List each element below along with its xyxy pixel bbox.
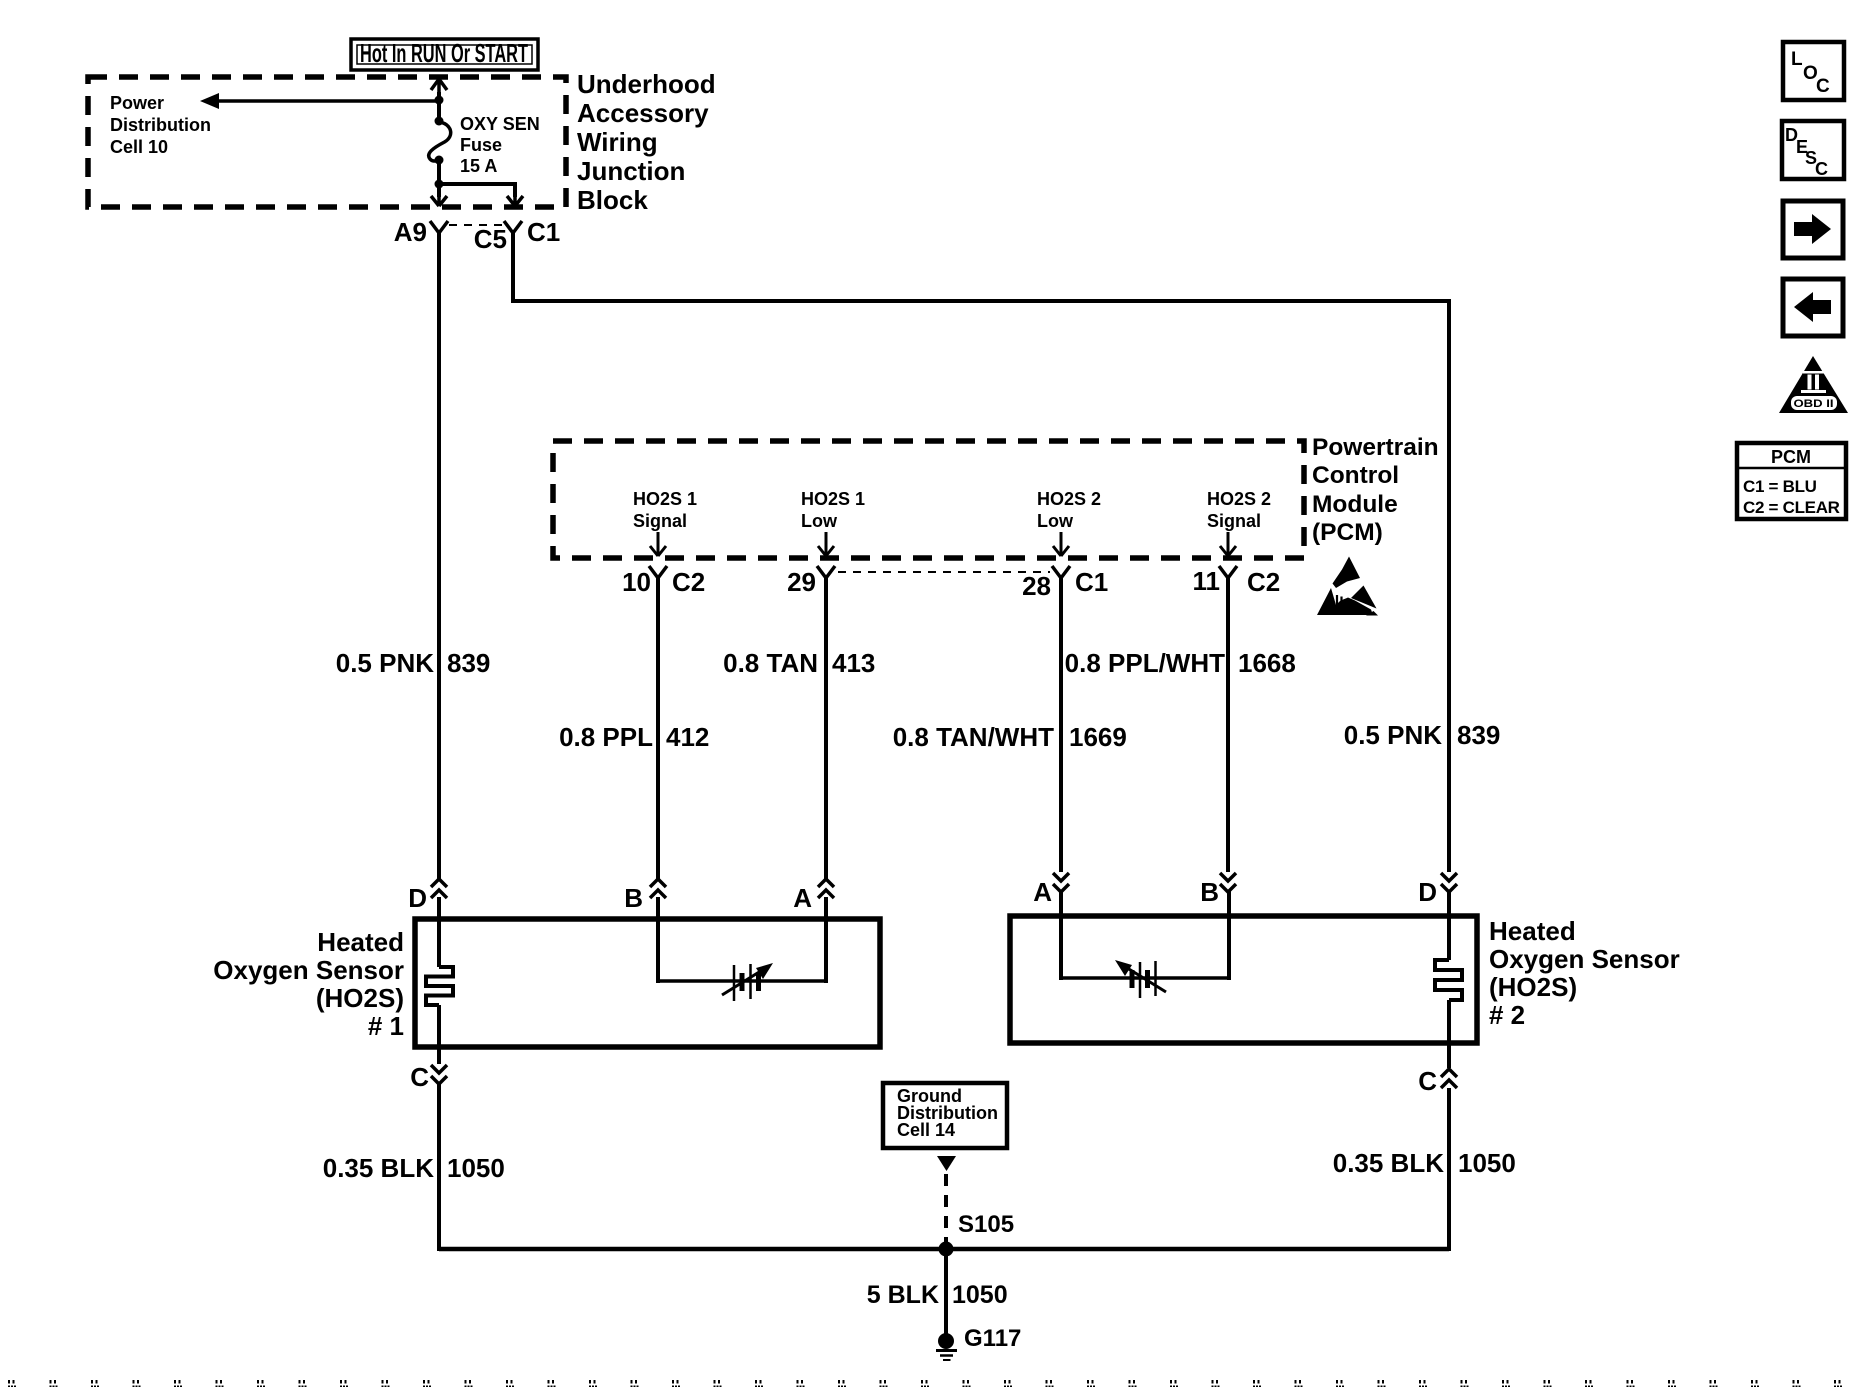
svg-text:C2: C2 <box>672 567 705 597</box>
label: 0.35 BLK 1050 (right) <box>1333 1148 1516 1178</box>
svg-text:Low: Low <box>801 511 838 531</box>
wire: 0.8 TAN 413 (pin29 to HO2S#1 A) <box>824 577 828 879</box>
svg-text:Oxygen Sensor: Oxygen Sensor <box>213 955 404 985</box>
svg-text:Hot In RUN Or START: Hot In RUN Or START <box>360 38 528 68</box>
label: Power Distribution Cell 10 <box>110 93 211 157</box>
sidebar icon: arrow right <box>1783 201 1843 258</box>
label box: Ground Distribution Cell 14 <box>883 1083 1007 1148</box>
svg-text:Heated: Heated <box>317 927 404 957</box>
svg-text:C1: C1 <box>1075 567 1108 597</box>
svg-text:Control: Control <box>1312 462 1399 489</box>
PCM: Powertrain Control Module (dashed box) <box>553 441 1304 558</box>
svg-text:C1 = BLU: C1 = BLU <box>1743 477 1817 496</box>
svg-text:1050: 1050 <box>1458 1148 1516 1178</box>
svg-text:0.8 TAN/WHT: 0.8 TAN/WHT <box>893 722 1054 752</box>
sensor cell (variable, HO2S#1) <box>722 963 773 1001</box>
connector B (HO2S#2) <box>1200 873 1236 907</box>
wire: heater to C (HO2S#2) <box>1447 1000 1451 1068</box>
label: 0.5 PNK 839 (right) <box>1344 720 1501 750</box>
connector A (HO2S#2), down chevrons <box>1033 873 1069 907</box>
svg-text:Signal: Signal <box>633 511 687 531</box>
svg-text:C5: C5 <box>474 224 507 254</box>
label: Heated Oxygen Sensor (HO2S) # 1 <box>213 927 404 1041</box>
svg-text:Oxygen Sensor: Oxygen Sensor <box>1489 944 1680 974</box>
svg-text:0.5 PNK: 0.5 PNK <box>336 648 434 678</box>
svg-text:Heated: Heated <box>1489 916 1576 946</box>
svg-text:A: A <box>1033 877 1052 907</box>
svg-text:B: B <box>1200 877 1219 907</box>
svg-text:Powertrain: Powertrain <box>1312 434 1439 461</box>
svg-text:1050: 1050 <box>447 1153 505 1183</box>
svg-text:15 A: 15 A <box>460 156 497 176</box>
HO2S #2 sensor box <box>1010 916 1477 1043</box>
svg-text:839: 839 <box>1457 720 1500 750</box>
svg-text:(PCM): (PCM) <box>1312 519 1383 546</box>
svg-text:S105: S105 <box>958 1211 1014 1238</box>
svg-text:A9: A9 <box>394 217 427 247</box>
connector C (HO2S#2), up chevrons <box>1418 1066 1457 1096</box>
label: 0.8 PPL/WHT 1668 <box>1065 648 1296 678</box>
connector C (HO2S#1), down chevrons <box>410 1062 447 1092</box>
svg-text:Junction: Junction <box>577 156 685 186</box>
label: OXY SEN Fuse 15 A <box>460 114 540 176</box>
fuse: OXY SEN Fuse 15 A <box>429 117 451 165</box>
svg-text:Wiring: Wiring <box>577 127 658 157</box>
svg-text:D: D <box>408 883 427 913</box>
svg-text:C: C <box>1816 76 1830 97</box>
wire: heater to C <box>437 1005 441 1064</box>
label: 0.35 BLK 1050 (left) <box>323 1153 505 1183</box>
svg-text:A: A <box>793 883 812 913</box>
label: Heated Oxygen Sensor (HO2S) # 2 <box>1489 916 1680 1030</box>
wire: 5 BLK 1050 (S105 to G117) <box>944 1249 948 1334</box>
svg-text:(HO2S): (HO2S) <box>1489 972 1577 1002</box>
svg-text:Power: Power <box>110 93 164 113</box>
PCM pin label: HO2S 1 Low <box>801 489 865 556</box>
wire: sensor cell link A-B <box>1061 976 1229 980</box>
svg-text:HO2S 1: HO2S 1 <box>633 489 697 509</box>
wire: 0.5 PNK 839 left vertical (A9 to HO2S#1 D) <box>437 232 441 879</box>
pin 28 C1 <box>1022 566 1108 601</box>
svg-text:839: 839 <box>447 648 490 678</box>
svg-text:Cell 10: Cell 10 <box>110 137 168 157</box>
wire: dashed connector tie A9-C5 <box>449 224 503 226</box>
svg-text:# 2: # 2 <box>1489 1000 1525 1030</box>
node: junction dot below fuse <box>435 180 444 189</box>
svg-text:D: D <box>1418 877 1437 907</box>
wire: hot feed up-arrow to Hot In RUN <box>431 79 447 122</box>
svg-text:Fuse: Fuse <box>460 135 502 155</box>
svg-text:1050: 1050 <box>952 1281 1008 1309</box>
wire: ground bus (C to C) <box>439 1247 1449 1252</box>
pin 10 C2 <box>622 566 705 597</box>
svg-text:# 1: # 1 <box>368 1011 404 1041</box>
heater element (HO2S#1) <box>426 967 453 1005</box>
label box: Hot In RUN Or START <box>351 38 538 70</box>
svg-text:Signal: Signal <box>1207 511 1261 531</box>
wire: A lead into box (HO2S#2) <box>1059 890 1063 980</box>
junction block: Underhood Accessory Wiring Junction Block (dashed box) <box>88 77 566 207</box>
svg-text:10: 10 <box>622 567 651 597</box>
wire: branch to C1 (elbow) <box>439 184 515 197</box>
svg-text:0.35 BLK: 0.35 BLK <box>1333 1148 1444 1178</box>
svg-text:Low: Low <box>1037 511 1074 531</box>
wire: D lead into box (HO2S#2) <box>1447 890 1451 960</box>
wire: 0.8 TAN/WHT 1669 (pin28 to HO2S#2 A) <box>1059 577 1063 872</box>
PCM pin label: HO2S 1 Signal <box>633 489 697 556</box>
heater element (HO2S#2) <box>1435 960 1462 1000</box>
ESD sensitive symbol <box>1317 557 1378 616</box>
svg-text:0.8 PPL/WHT: 0.8 PPL/WHT <box>1065 648 1225 678</box>
sidebar icon: arrow left <box>1783 279 1843 336</box>
svg-text:Accessory: Accessory <box>577 98 709 128</box>
svg-text:HO2S 2: HO2S 2 <box>1037 489 1101 509</box>
wire: dashed connector tie 29-28 <box>838 571 1050 573</box>
sidebar icon: OBD II triangle <box>1779 356 1848 413</box>
sidebar legend: PCM connectors <box>1737 443 1846 519</box>
wire: 0.35 BLK 1050 (right) <box>1447 1088 1451 1251</box>
pin 29 <box>787 566 835 597</box>
svg-text:OXY SEN: OXY SEN <box>460 114 540 134</box>
arrow: to ground distribution <box>937 1156 956 1171</box>
wire: 0.8 PPL 412 (pin10 to HO2S#1 B) <box>656 577 660 879</box>
label: 0.8 PPL 412 <box>559 722 709 752</box>
svg-text:C: C <box>410 1062 429 1092</box>
wire: A lead into box <box>824 897 828 983</box>
label: 0.8 TAN 413 <box>723 648 875 678</box>
svg-text:29: 29 <box>787 567 816 597</box>
node S105 <box>939 1242 954 1257</box>
PCM pin label: HO2S 2 Low <box>1037 489 1101 556</box>
svg-text:HO2S 2: HO2S 2 <box>1207 489 1271 509</box>
label: 5 BLK 1050 <box>867 1281 1008 1309</box>
label: 0.5 PNK 839 (left) <box>336 648 491 678</box>
svg-text:C1: C1 <box>527 217 560 247</box>
label: Powertrain Control Module (PCM) <box>1312 434 1439 546</box>
svg-text:5 BLK: 5 BLK <box>867 1281 939 1309</box>
svg-text:1668: 1668 <box>1238 648 1296 678</box>
svg-text:412: 412 <box>666 722 709 752</box>
svg-text:(HO2S): (HO2S) <box>316 983 404 1013</box>
svg-text:HO2S 1: HO2S 1 <box>801 489 865 509</box>
ground G117 <box>936 1333 957 1360</box>
svg-text:PCM: PCM <box>1771 447 1811 467</box>
svg-text:28: 28 <box>1022 571 1051 601</box>
wire: sensor cell link B-A <box>658 979 826 983</box>
wire: B lead into box (HO2S#2) <box>1227 890 1231 980</box>
HO2S #1 sensor box <box>415 919 880 1047</box>
svg-text:Distribution: Distribution <box>110 115 211 135</box>
connector A (HO2S#1) <box>793 879 834 913</box>
wire: 0.8 PPL/WHT 1668 (pin11 to HO2S#2 B) <box>1226 577 1230 872</box>
connector D (HO2S#2) <box>1418 873 1457 907</box>
svg-text:Module: Module <box>1312 491 1398 518</box>
sidebar icon: DESC <box>1782 121 1844 179</box>
sensor cell (variable, HO2S#2) <box>1115 960 1166 998</box>
connector C5 / C1 <box>474 217 561 254</box>
label: 0.8 TAN/WHT 1669 <box>893 722 1127 752</box>
svg-text:L: L <box>1791 49 1803 70</box>
svg-text:C2 = CLEAR: C2 = CLEAR <box>1743 498 1840 517</box>
svg-text:C: C <box>1418 1066 1437 1096</box>
wire: B lead into box <box>656 897 660 983</box>
wire: D lead into box <box>437 897 441 967</box>
arrow: down into C5 <box>507 196 523 206</box>
svg-text:Underhood: Underhood <box>577 69 716 99</box>
connector A9 <box>394 217 448 247</box>
node: junction dot at feed tap <box>435 96 444 105</box>
svg-text:0.8 TAN: 0.8 TAN <box>723 648 818 678</box>
svg-text:C: C <box>1815 159 1828 179</box>
svg-text:0.8 PPL: 0.8 PPL <box>559 722 653 752</box>
PCM pin label: HO2S 2 Signal <box>1207 489 1271 556</box>
svg-text:413: 413 <box>832 648 875 678</box>
pin 11 C2 <box>1193 566 1281 597</box>
svg-text:G117: G117 <box>964 1325 1021 1352</box>
svg-text:11: 11 <box>1193 566 1221 596</box>
wire: feed to Power Distribution (arrow left) <box>200 93 439 109</box>
sidebar icon: LOC <box>1783 42 1844 100</box>
svg-text:C2: C2 <box>1247 567 1280 597</box>
connector D (HO2S#1), up chevrons <box>408 879 447 913</box>
svg-text:Block: Block <box>577 185 648 215</box>
svg-text:1669: 1669 <box>1069 722 1127 752</box>
wire: 0.5 PNK 839 right run (C1 across and down) <box>513 232 1449 872</box>
wire: fuse output stem <box>437 160 441 197</box>
label: Underhood Accessory Wiring Junction Block <box>577 69 716 215</box>
svg-text:0.5 PNK: 0.5 PNK <box>1344 720 1442 750</box>
svg-text:OBD II: OBD II <box>1794 398 1834 410</box>
svg-text:0.35 BLK: 0.35 BLK <box>323 1153 434 1183</box>
wire: 0.35 BLK 1050 (left) <box>437 1084 441 1251</box>
film perforation marks (bottom strip) <box>0 1376 1868 1387</box>
svg-text:Cell 14: Cell 14 <box>897 1120 955 1140</box>
connector B (HO2S#1) <box>624 879 666 913</box>
arrow: down into A9 <box>431 196 447 206</box>
wire: dashed to S105 <box>944 1174 948 1243</box>
svg-text:B: B <box>624 883 643 913</box>
